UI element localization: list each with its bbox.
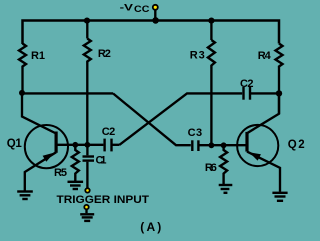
svg-text:R5: R5: [54, 167, 67, 179]
svg-text:C1: C1: [96, 154, 107, 166]
svg-text:C3: C3: [188, 127, 203, 139]
ground trigger input: [80, 214, 94, 221]
svg-text:Q1: Q1: [7, 138, 23, 150]
resistor R5: [72, 145, 79, 181]
svg-text:R2: R2: [98, 48, 111, 60]
resistor R3: [208, 40, 215, 69]
capacitor C2 (left, Q1 base coupling): [105, 139, 112, 152]
svg-text:R3: R3: [190, 50, 205, 62]
capacitor C2 (top right): [244, 87, 251, 100]
node -VCC junction: [152, 17, 159, 24]
svg-text:(A): (A): [140, 220, 161, 234]
wire C2 right plate to R4 column: [250, 92, 279, 94]
wire diagonal C2 up to top-right: [120, 93, 243, 144]
wire C2 to diagonal: [112, 144, 120, 146]
node R2 top junction: [84, 18, 90, 24]
wire R2 bottom to Q1 base node: [86, 64, 88, 145]
ground Q2 emitter: [272, 193, 287, 201]
resistor R6: [220, 145, 227, 184]
wire -VCC terminal stem: [154, 10, 156, 21]
resistor R1: [19, 44, 26, 69]
svg-text:R4: R4: [258, 50, 272, 62]
wire R3 top drop: [210, 21, 212, 41]
capacitor C3: [192, 140, 198, 151]
svg-text:R6: R6: [205, 162, 217, 174]
svg-text:Q2: Q2: [288, 139, 305, 151]
ground R6: [219, 185, 233, 193]
svg-text:R1: R1: [31, 50, 45, 62]
transistor Q1: [22, 93, 68, 190]
resistor R2: [84, 39, 91, 64]
ground Q1 emitter: [17, 192, 33, 200]
node R3 top junction: [208, 18, 214, 24]
wire top supply rail: [23, 21, 280, 45]
svg-text:TRIGGER INPUT: TRIGGER INPUT: [57, 194, 150, 206]
terminal -VCC: [153, 5, 158, 10]
node Q2 base R3 junction: [209, 142, 215, 148]
wire node A horizontal (Q1 collector cross-coupling): [22, 92, 113, 94]
node Q1 base C1 junction: [85, 142, 91, 148]
node Q2 base R6 junction: [221, 142, 227, 148]
capacitor C1: [83, 145, 95, 188]
svg-text:C2: C2: [102, 126, 116, 138]
node junction dots: [19, 17, 282, 148]
wire R1 bottom to node A: [21, 69, 23, 94]
wire Q1 base line: [56, 144, 103, 146]
svg-text:C2: C2: [240, 78, 254, 90]
terminal trigger input top: [85, 188, 89, 192]
svg-text:CC: CC: [134, 4, 150, 14]
svg-text:-V: -V: [120, 3, 133, 13]
wire R2 top drop: [86, 21, 88, 39]
ground R5: [68, 182, 84, 189]
wire diagonal Q1 collector to C3: [113, 93, 191, 145]
wire C3 to Q2 base: [198, 144, 245, 146]
wire trigger bottom terminal to ground: [85, 209, 87, 213]
node C2/R4 junction: [276, 90, 282, 96]
node A Q1 collector: [19, 90, 25, 96]
node Q1 base R5 junction: [72, 142, 78, 148]
terminal trigger input bottom: [84, 205, 88, 209]
wire R4 bottom through C2 node to Q2 collector elbow: [278, 68, 280, 115]
wire R3 bottom to Q2 base node: [210, 69, 212, 146]
transistor Q2: [237, 93, 280, 191]
resistor R4: [276, 44, 283, 68]
